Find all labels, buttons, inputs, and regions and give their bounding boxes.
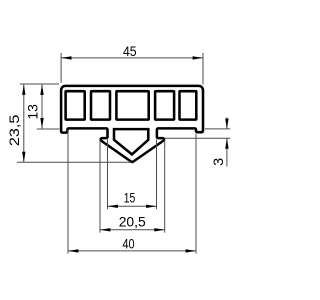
extension line: 3 upper (bar underside right) bbox=[205, 128, 230, 130]
dimension 3 arrow lower (pointing up) bbox=[225, 138, 228, 148]
dimension 13 arrow bottom bbox=[40, 118, 43, 128]
dimension 45 line bbox=[61, 57, 203, 59]
extension line: 15 right bbox=[156, 140, 158, 210]
dimension 20.5 arrow right bbox=[154, 228, 164, 231]
svg-text:13: 13 bbox=[24, 104, 40, 120]
dimension 40 arrow right bbox=[186, 249, 196, 252]
extension line: 20.5 left bbox=[99, 140, 101, 233]
dimension 15 line bbox=[108, 205, 157, 207]
svg-text:45: 45 bbox=[123, 43, 137, 59]
chamber hole 4 bbox=[155, 91, 174, 119]
extension line: top edge (shared 13 / 23.5) bbox=[20, 83, 59, 85]
dimension 13 line bbox=[41, 85, 43, 129]
extension line: 40 right bbox=[195, 134, 197, 254]
dimension 40 line bbox=[68, 250, 196, 252]
svg-text:20,5: 20,5 bbox=[119, 213, 146, 229]
dimension 45 arrow right bbox=[193, 56, 203, 59]
dimension 23.5 line bbox=[23, 85, 25, 163]
dimension 15 arrow left bbox=[108, 205, 118, 208]
svg-text:15: 15 bbox=[124, 190, 136, 206]
chamber hole 1 bbox=[66, 91, 85, 119]
dimension 13 arrow top bbox=[40, 85, 43, 95]
profile outer contour bbox=[61, 86, 203, 162]
svg-text:3: 3 bbox=[210, 158, 226, 166]
dimension 3 line lower segment bbox=[226, 138, 228, 166]
dimension 23.5 arrow bottom bbox=[22, 152, 25, 162]
extension line: 45 right bbox=[202, 53, 204, 85]
extension line: 13 bottom (bar underside) bbox=[37, 128, 60, 130]
dimension 3 arrow upper (pointing down) bbox=[225, 119, 228, 129]
dimension 3 line upper segment bbox=[226, 118, 228, 129]
svg-text:23,5: 23,5 bbox=[6, 114, 22, 146]
svg-text:40: 40 bbox=[123, 236, 135, 252]
dimension 40 arrow left bbox=[68, 249, 78, 252]
extension line: 40 left bbox=[67, 130, 69, 254]
extension line: 20.5 right bbox=[164, 140, 166, 233]
chamber hole 5 bbox=[180, 91, 197, 119]
chamber hole 3 (middle, wide) bbox=[116, 91, 148, 119]
dimension 20.5 arrow left bbox=[100, 228, 110, 231]
extension line: 15 left bbox=[107, 140, 109, 210]
extension line: 45 left bbox=[60, 53, 62, 83]
extension line: 23.5 bottom (V tip) bbox=[17, 161, 132, 163]
chamber hole 2 bbox=[91, 91, 110, 119]
dimension 45 arrow left bbox=[61, 56, 71, 59]
dimension 20.5 line bbox=[100, 229, 165, 231]
dimension 23.5 arrow top bbox=[22, 85, 25, 95]
arrowhead hollow (pentagon channel) bbox=[114, 129, 148, 154]
extension line: 3 lower (barb shoulder) bbox=[165, 137, 231, 139]
dimension 15 arrow right bbox=[146, 205, 156, 208]
